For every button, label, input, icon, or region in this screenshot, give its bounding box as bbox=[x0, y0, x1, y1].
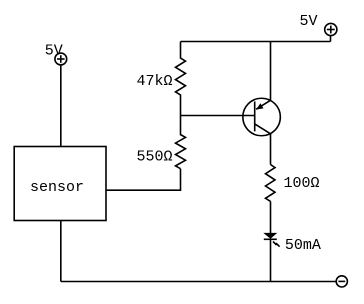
wire: top rail bbox=[181, 41, 331, 43]
wire: sensor bottom to bottom rail bbox=[60, 221, 62, 282]
resistor 47kΩ bbox=[176, 42, 186, 116]
wire: base node to transistor base bbox=[181, 115, 255, 117]
wire: bottom rail bbox=[61, 281, 336, 283]
svg-text:50mA: 50mA bbox=[285, 237, 321, 254]
resistor 550Ω bbox=[176, 116, 186, 169]
wire: LED to bottom rail bbox=[270, 239, 272, 281]
wire: 5V left terminal to sensor top bbox=[60, 65, 62, 147]
wire: transistor collector to 100Ω bbox=[270, 134, 272, 165]
svg-text:550Ω: 550Ω bbox=[136, 148, 172, 165]
svg-text:47kΩ: 47kΩ bbox=[136, 73, 172, 90]
LED D1 bbox=[263, 233, 279, 247]
power terminal +5V (left) bbox=[55, 53, 67, 65]
svg-text:100Ω: 100Ω bbox=[284, 175, 320, 192]
sensor box bbox=[14, 147, 106, 221]
wire: top rail to transistor emitter bbox=[270, 42, 272, 101]
wire: sensor right side to 550Ω bottom bbox=[106, 169, 181, 191]
svg-text:5V: 5V bbox=[300, 13, 318, 30]
resistor 100Ω bbox=[266, 165, 276, 202]
svg-text:5V: 5V bbox=[45, 43, 63, 60]
wire: 100Ω to LED bbox=[270, 201, 272, 233]
transistor Q1 (PNP) bbox=[243, 98, 281, 136]
svg-text:sensor: sensor bbox=[30, 179, 84, 196]
power terminal +5V (right) bbox=[325, 23, 337, 41]
power terminal − (bottom right) bbox=[336, 276, 347, 287]
